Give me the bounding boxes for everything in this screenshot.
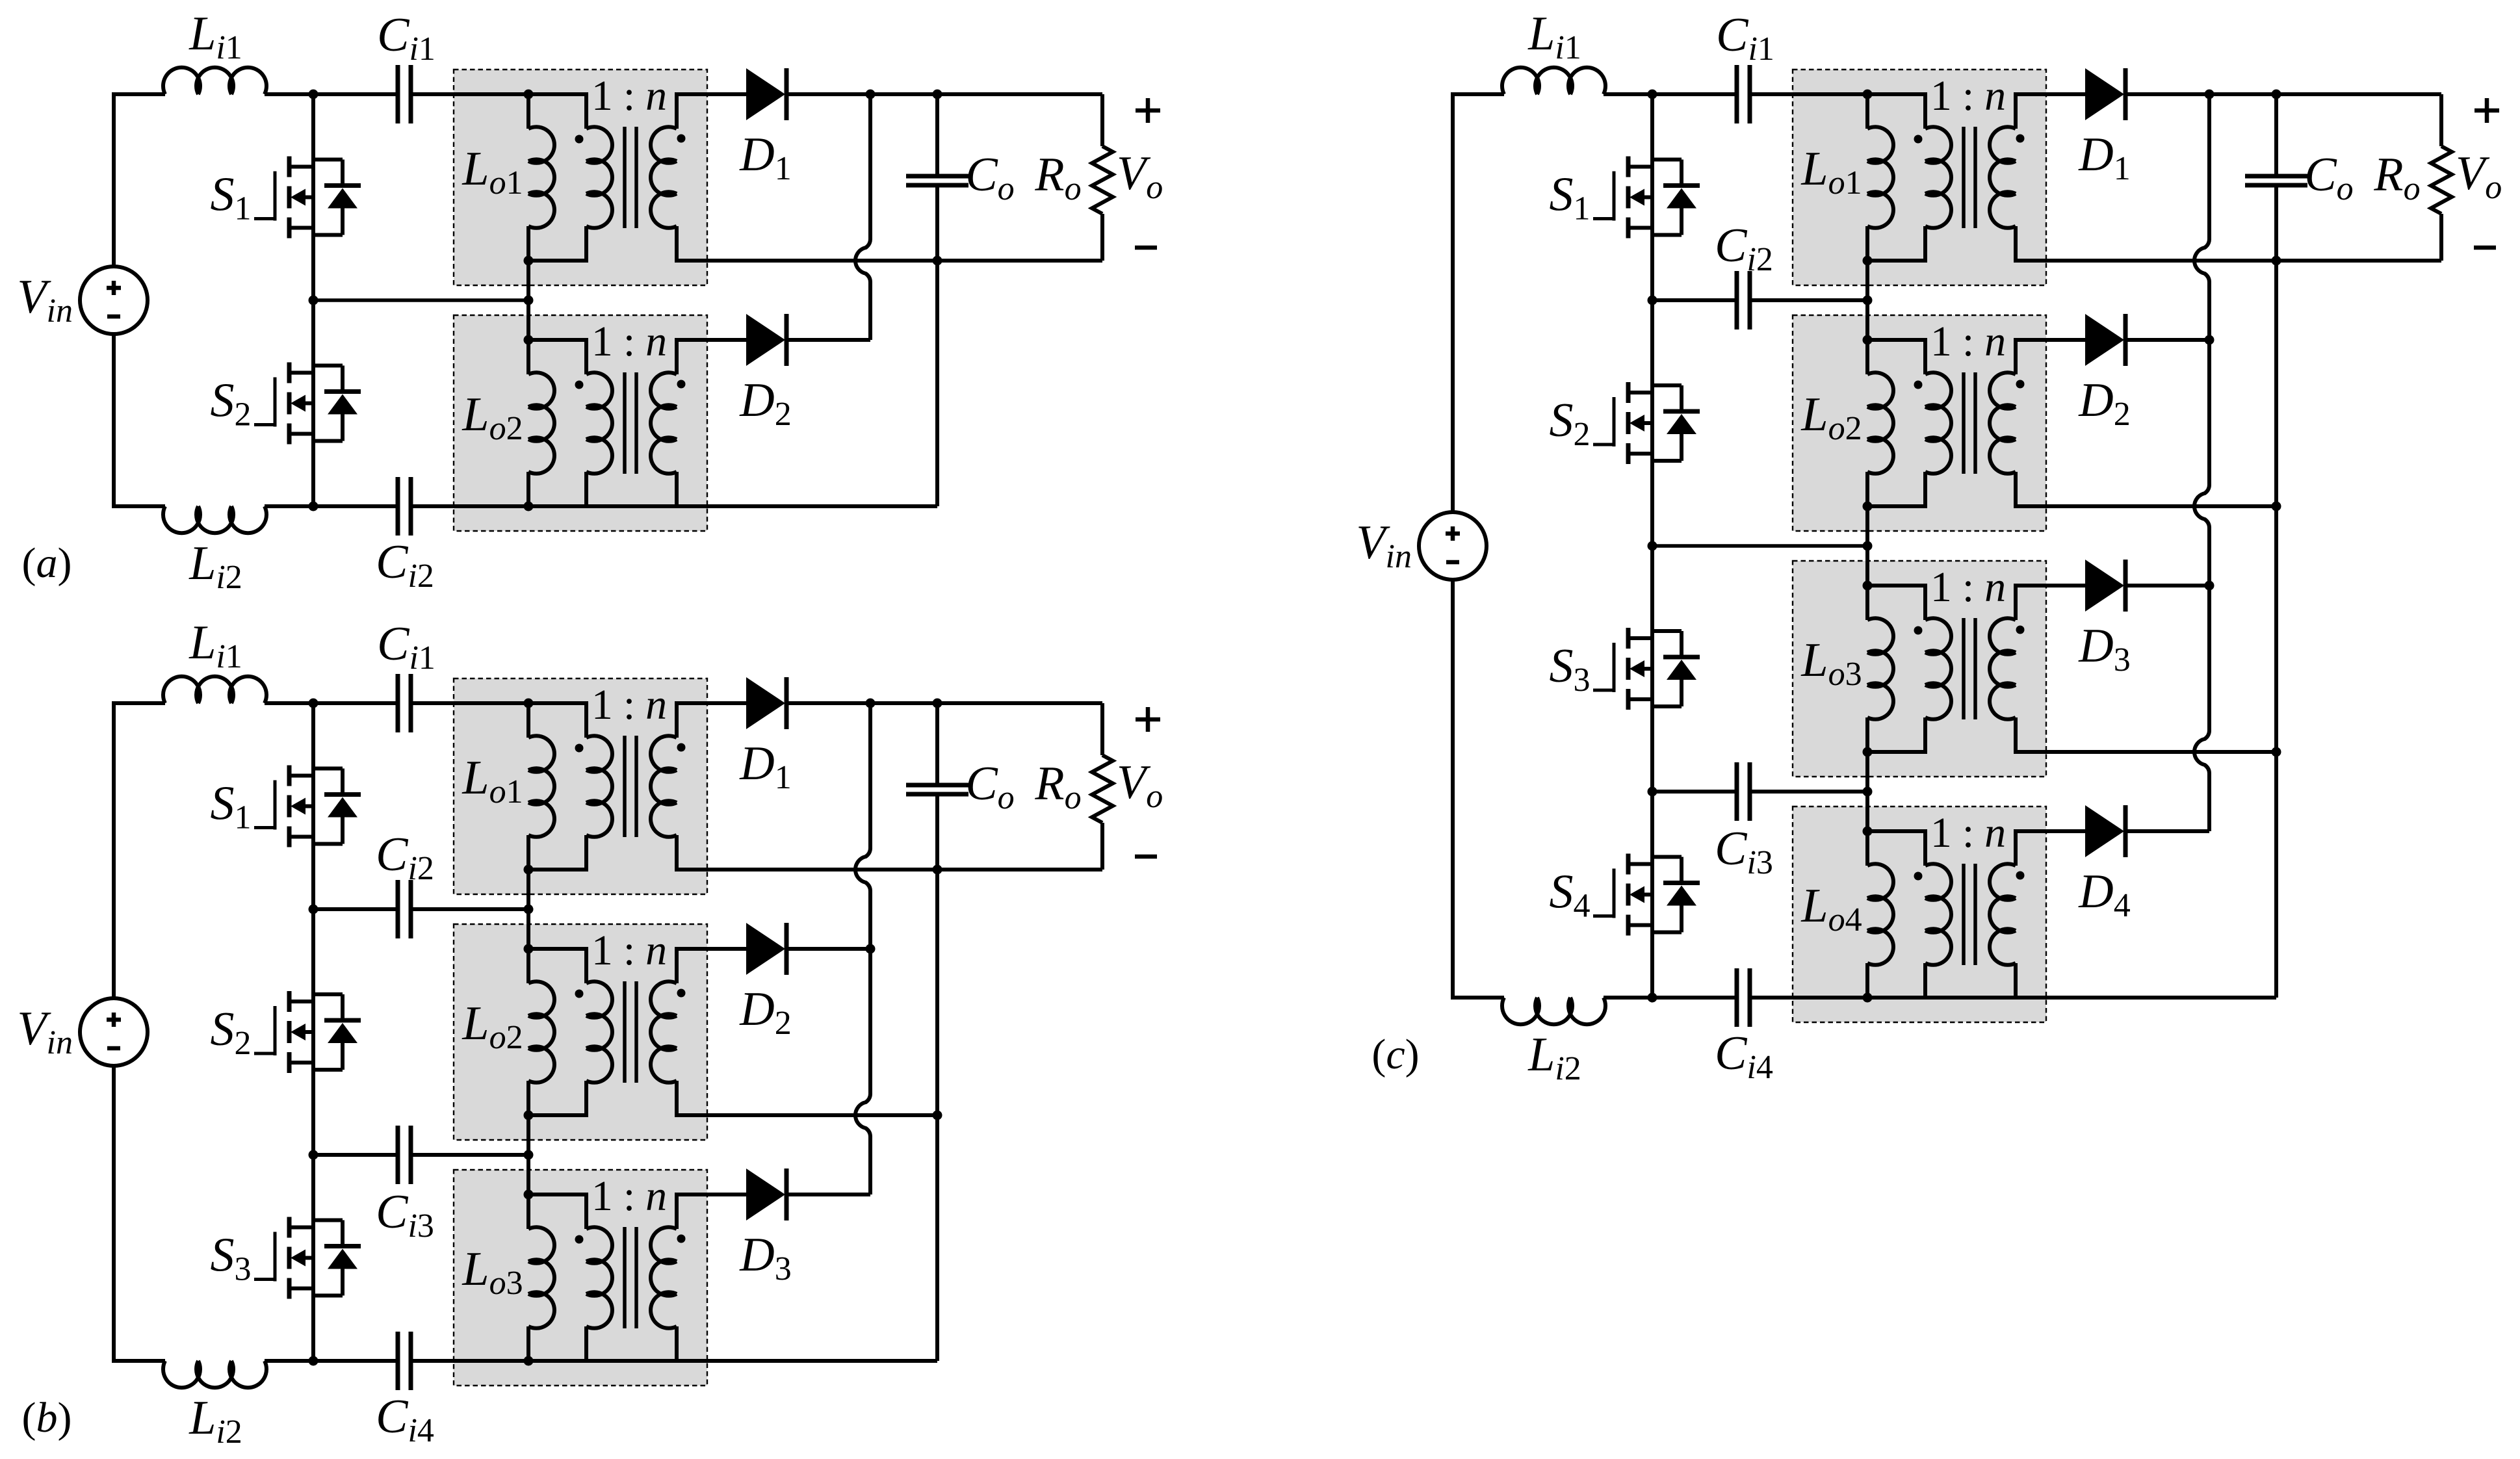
- transformer T2 marks and label Lo2 circuit b: [461, 927, 685, 1056]
- wire top rail to Ci1 circuit b: [265, 701, 398, 705]
- node T2 primary top circuit a: [524, 335, 534, 345]
- node T2 primary top circuit b: [524, 944, 534, 954]
- svg-text:1:n: 1:n: [591, 927, 667, 974]
- wire cathode bus vertical circuit c: [2207, 94, 2211, 831]
- label Vo circuit a: [1117, 147, 1163, 206]
- label D3 circuit b: [739, 1228, 791, 1287]
- wire rail1 right circuit b: [411, 907, 528, 911]
- label Ci1 circuit b: [377, 617, 435, 677]
- wire secondary return row 2 circuit b: [710, 1113, 937, 1117]
- diode D2 circuit a: [746, 314, 786, 366]
- svg-text:1:n: 1:n: [1930, 809, 2006, 857]
- wire Co top lead circuit c: [2274, 94, 2278, 176]
- wire top rail Ci1 to transformer circuit b: [411, 701, 528, 705]
- capacitor Ci1 circuit c: [1737, 65, 1750, 123]
- label D1 circuit b: [739, 737, 791, 796]
- wire node column below T2 circuit c: [1865, 506, 1869, 546]
- label Ro circuit b: [1034, 757, 1081, 816]
- node output plus at Co circuit c: [2272, 90, 2281, 99]
- transistor S4 circuit c: [1593, 854, 1700, 936]
- label S3 circuit b: [211, 1229, 252, 1288]
- wire Co bottom / return bus circuit b: [935, 794, 939, 1361]
- diode D2 circuit c: [2085, 314, 2125, 366]
- label Co circuit b: [965, 757, 1014, 816]
- transformer T1 windings circuit a: [528, 92, 710, 263]
- node rail1 at transformer column circuit a: [524, 296, 534, 305]
- label Ci1 circuit a: [377, 8, 435, 68]
- wire T1 secondary to D1 circuit b: [710, 701, 746, 705]
- node rail3 at transformer column circuit c: [1863, 787, 1873, 797]
- node rail1 at switch column circuit a: [309, 296, 318, 305]
- transistor S1 circuit c: [1593, 157, 1700, 239]
- node rail2 at switch column circuit c: [1648, 541, 1657, 551]
- label S2 circuit b: [211, 1003, 252, 1062]
- transformer T2 windings circuit b: [528, 947, 710, 1117]
- transformer T3 windings circuit c: [1867, 584, 2049, 754]
- wire D2 cathode circuit c: [2127, 338, 2209, 342]
- node D3 on cathode bus circuit c: [2205, 581, 2215, 591]
- capacitor Ci2 circuit a: [398, 477, 411, 536]
- wire rail2 right circuit b: [411, 1153, 528, 1157]
- wire D1 cathode circuit a: [788, 92, 870, 96]
- label S3 circuit c: [1550, 639, 1591, 699]
- wire left vertical top circuit b: [112, 701, 116, 998]
- label Ci2 circuit b: [376, 828, 434, 887]
- wire D2 cathode circuit a: [788, 338, 870, 342]
- label Li2 circuit b: [188, 1391, 242, 1451]
- transistor S2 circuit a: [254, 363, 361, 445]
- label Li1 circuit c: [1527, 7, 1581, 66]
- label Li1 circuit b: [188, 616, 242, 675]
- label S2 circuit a: [211, 374, 252, 433]
- node Lo1 top circuit b: [524, 699, 534, 708]
- node rail2 at switch column circuit b: [309, 1150, 318, 1160]
- wire T1 secondary to D1 circuit a: [710, 92, 746, 96]
- label Ro circuit c: [2373, 148, 2420, 207]
- wire top rail D1 to Co circuit a: [870, 92, 937, 96]
- wire S2 drain circuit b: [311, 909, 315, 1001]
- wire Co bottom / return bus circuit c: [2274, 185, 2278, 998]
- wire top rail D1 to Co circuit c: [2209, 92, 2276, 96]
- label circuit a: [22, 539, 72, 587]
- svg-text:1:n: 1:n: [591, 318, 667, 365]
- wire S3 drain circuit c: [1650, 546, 1654, 638]
- diode D1 circuit a: [746, 68, 786, 120]
- label Li2 circuit a: [188, 537, 242, 596]
- transformer cell box Lo2/T2 circuit a: [454, 315, 707, 531]
- label Vin circuit b: [17, 1002, 73, 1061]
- transformer cell box Lo2/T2 circuit c: [1793, 315, 2046, 531]
- label output plus circuit a: [1136, 98, 1160, 123]
- node T3 primary top circuit b: [524, 1190, 534, 1200]
- wire left vertical bottom circuit a: [112, 334, 116, 508]
- wire node column above T3 circuit b: [526, 1155, 530, 1194]
- wire secondary return row 1 circuit a: [710, 259, 1102, 263]
- wire T2 secondary to D2 circuit a: [710, 338, 746, 342]
- node return row 3 at Co bus circuit c: [2272, 747, 2281, 757]
- label D1 circuit c: [2078, 128, 2130, 187]
- wire rail2 left circuit b: [313, 1153, 398, 1157]
- node rail1 at transformer column circuit b: [524, 905, 534, 914]
- node return row 2 at Co bus circuit b: [933, 1111, 942, 1120]
- wire bottom rail cap to Co column circuit b: [411, 1359, 937, 1363]
- wire secondary return row 2 circuit c: [2049, 504, 2276, 508]
- node T4 primary top circuit c: [1863, 827, 1873, 836]
- label D2 circuit c: [2078, 374, 2130, 433]
- transformer T2 windings circuit c: [1867, 338, 2049, 508]
- wire bottom rail cap to Co column circuit c: [1750, 996, 2276, 1000]
- node bottom of last switch circuit a: [309, 502, 318, 511]
- svg-text:1:n: 1:n: [591, 72, 667, 120]
- svg-text:(b): (b): [22, 1394, 72, 1441]
- wire top rail D1 to Co circuit b: [870, 701, 937, 705]
- transistor S3 circuit c: [1593, 628, 1700, 710]
- node rail2 at transformer column circuit c: [1863, 541, 1873, 551]
- label Ci3 circuit b: [376, 1185, 434, 1245]
- wire S2 drain circuit c: [1650, 300, 1654, 393]
- wire rail1 circuit a: [313, 298, 528, 302]
- wire S3 source circuit c: [1650, 699, 1654, 792]
- wire bottom rail left circuit b: [112, 1359, 165, 1363]
- wire top rail Co to Ro circuit b: [937, 701, 1102, 705]
- wire top rail to Ci1 circuit c: [1604, 92, 1737, 96]
- wire bottom rail to cap circuit b: [265, 1359, 398, 1363]
- capacitor Ci1 circuit a: [398, 65, 411, 123]
- wire S1 drain circuit b: [311, 703, 315, 776]
- wire left vertical top circuit c: [1451, 92, 1455, 512]
- node return row 2 at Co bus circuit c: [2272, 502, 2281, 511]
- wire S2 drain circuit a: [311, 300, 315, 373]
- label circuit c: [1371, 1031, 1419, 1078]
- transformer cell box Lo3/T3 circuit b: [454, 1170, 707, 1386]
- label Ci3 circuit c: [1715, 822, 1773, 881]
- node transformer bottom on rail circuit b: [524, 1356, 534, 1366]
- transformer T4 marks and label Lo4 circuit c: [1800, 809, 2024, 938]
- diode D3 circuit b: [746, 1168, 786, 1220]
- transformer cell box Lo3/T3 circuit c: [1793, 561, 2046, 777]
- node T3 primary bottom circuit c: [1863, 747, 1873, 757]
- wire crossover hop on cathode bus circuit c: [2194, 730, 2209, 773]
- wire crossover hop on cathode bus circuit a: [855, 239, 870, 282]
- node bottom of last switch circuit b: [309, 1356, 318, 1366]
- node T2 primary bottom circuit c: [1863, 502, 1873, 511]
- wire top rail left circuit c: [1451, 92, 1504, 96]
- label S1 circuit a: [211, 168, 252, 227]
- wire node column above T2 circuit a: [526, 300, 530, 340]
- transformer T1 windings circuit c: [1867, 92, 2049, 263]
- wire cathode bus vertical circuit b: [868, 703, 872, 1194]
- node rail1 at switch column circuit c: [1648, 296, 1657, 305]
- label Vo circuit b: [1117, 756, 1163, 815]
- node rail3 at switch column circuit c: [1648, 787, 1657, 797]
- node T1 primary bottom circuit c: [1863, 256, 1873, 266]
- wire node column above T2 circuit b: [526, 909, 530, 949]
- inductor Li2 circuit c: [1502, 998, 1605, 1024]
- node Lo1 top circuit c: [1863, 90, 1873, 99]
- wire bottom rail to cap circuit a: [265, 504, 398, 508]
- wire S1 drain circuit c: [1650, 94, 1654, 167]
- wire cathode bus vertical circuit a: [868, 94, 872, 340]
- wire Co top lead circuit a: [935, 94, 939, 176]
- wire node column above T2 circuit c: [1865, 300, 1869, 340]
- capacitor Ci2 circuit c: [1737, 271, 1750, 329]
- wire top rail left circuit b: [112, 701, 165, 705]
- node T3 primary top circuit c: [1863, 581, 1873, 591]
- wire T3 secondary to D3 circuit b: [710, 1193, 746, 1196]
- label Ci4 circuit c: [1715, 1027, 1773, 1086]
- label D3 circuit c: [2078, 619, 2130, 678]
- label D4 circuit c: [2078, 865, 2130, 924]
- wire crossover hop on cathode bus circuit b: [855, 1094, 870, 1137]
- label S4 circuit c: [1550, 866, 1591, 925]
- wire crossover hop on cathode bus circuit c: [2194, 239, 2209, 282]
- capacitor Ci3 circuit c: [1737, 762, 1750, 821]
- transformer T1 marks and label Lo1 circuit c: [1800, 72, 2024, 201]
- wire S4 source circuit c: [1650, 925, 1654, 998]
- wire left vertical bottom circuit b: [112, 1066, 116, 1363]
- wire top rail Ci1 to transformer circuit a: [411, 92, 528, 96]
- wire S3 drain circuit b: [311, 1155, 315, 1228]
- wire D1 cathode circuit c: [2127, 92, 2209, 96]
- node cathode bus top circuit b: [866, 699, 876, 708]
- wire T3 secondary to D3 circuit c: [2049, 584, 2085, 587]
- wire bottom rail to cap circuit c: [1604, 996, 1737, 1000]
- wire rail1 right circuit c: [1750, 298, 1867, 302]
- wire Co top lead circuit b: [935, 703, 939, 785]
- label Ci4 circuit b: [376, 1390, 434, 1449]
- node T2 primary top circuit c: [1863, 335, 1873, 345]
- node Lo1 top circuit a: [524, 90, 534, 99]
- wire crossover hop on cathode bus circuit c: [2194, 485, 2209, 528]
- capacitor Ci3 circuit b: [398, 1126, 411, 1184]
- transformer T4 windings circuit c: [1867, 829, 2049, 1000]
- wire T1 secondary to D1 circuit c: [2049, 92, 2085, 96]
- inductor Li2 circuit a: [163, 506, 266, 533]
- wire S1 source circuit a: [311, 228, 315, 301]
- node return row 1 at Co bus circuit c: [2272, 256, 2281, 266]
- inductor Li1 circuit a: [163, 68, 266, 94]
- wire rail1 left circuit b: [313, 907, 398, 911]
- transformer T2 windings circuit a: [528, 338, 710, 508]
- label output plus circuit c: [2475, 98, 2499, 123]
- diode D1 circuit b: [746, 677, 786, 729]
- capacitor Co circuit b: [906, 785, 968, 794]
- label Ci2 circuit a: [376, 536, 434, 595]
- wire top rail Co to Ro circuit c: [2276, 92, 2441, 96]
- wire rail3 right circuit c: [1750, 790, 1867, 794]
- wire bottom rail left circuit c: [1451, 996, 1504, 1000]
- node transformer bottom on rail circuit a: [524, 502, 534, 511]
- node rail1 at switch column circuit b: [309, 905, 318, 914]
- wire bottom rail cap to Co column circuit a: [411, 504, 937, 508]
- label D1 circuit a: [739, 128, 791, 187]
- transformer cell box Lo2/T2 circuit b: [454, 924, 707, 1140]
- wire crossover hop on cathode bus circuit b: [855, 848, 870, 891]
- transformer T2 marks and label Lo2 circuit a: [461, 318, 685, 447]
- capacitor Co circuit a: [906, 176, 968, 185]
- inductor Li2 circuit b: [163, 1361, 266, 1388]
- wire top rail left circuit a: [112, 92, 165, 96]
- wire rail3 left circuit c: [1652, 790, 1737, 794]
- transistor S1 circuit b: [254, 766, 361, 847]
- node T1 primary bottom circuit a: [524, 256, 534, 266]
- label Ro circuit a: [1034, 148, 1081, 207]
- wire node column below T1 circuit b: [526, 870, 530, 909]
- label S1 circuit b: [211, 777, 252, 836]
- transformer cell box Lo1/T1 circuit c: [1793, 70, 2046, 285]
- node rail1 at transformer column circuit c: [1863, 296, 1873, 305]
- wire rail1 left circuit c: [1652, 298, 1737, 302]
- wire secondary return row 1 circuit c: [2049, 259, 2441, 263]
- voltage source Vin circuit b: [80, 998, 148, 1066]
- label output plus circuit b: [1136, 707, 1160, 732]
- inductor Li1 circuit c: [1502, 68, 1605, 94]
- node bottom of last switch circuit c: [1648, 993, 1657, 1003]
- wire D1 cathode circuit b: [788, 701, 870, 705]
- resistor Ro circuit b: [1092, 703, 1113, 870]
- svg-text:1:n: 1:n: [1930, 563, 2006, 611]
- wire secondary return row 3 circuit c: [2049, 750, 2276, 754]
- svg-text:1:n: 1:n: [1930, 318, 2006, 365]
- wire bottom rail left circuit a: [112, 504, 165, 508]
- label circuit b: [22, 1394, 72, 1441]
- diode D2 circuit b: [746, 923, 786, 975]
- node D2 on cathode bus circuit c: [2205, 335, 2215, 345]
- label Ci2 circuit c: [1715, 219, 1773, 278]
- wire S1 source circuit c: [1650, 228, 1654, 301]
- wire S2 source circuit c: [1650, 454, 1654, 546]
- svg-text:1:n: 1:n: [591, 1172, 667, 1220]
- wire S4 drain circuit c: [1650, 792, 1654, 864]
- label Li2 circuit c: [1527, 1028, 1581, 1087]
- node rail2 at transformer column circuit b: [524, 1150, 534, 1160]
- transformer T2 marks and label Lo2 circuit c: [1800, 318, 2024, 447]
- wire left vertical top circuit a: [112, 92, 116, 266]
- inductor Li1 circuit b: [163, 677, 266, 703]
- wire rail2 circuit c: [1652, 544, 1867, 548]
- label Co circuit a: [965, 148, 1014, 207]
- transformer cell box Lo1/T1 circuit a: [454, 70, 707, 285]
- node T1 primary bottom circuit b: [524, 865, 534, 875]
- resistor Ro circuit a: [1092, 94, 1113, 261]
- label output minus circuit c: [2474, 246, 2496, 250]
- wire top rail Co to Ro circuit a: [937, 92, 1102, 96]
- transistor S3 circuit b: [254, 1217, 361, 1299]
- capacitor Ci4 circuit b: [398, 1332, 411, 1390]
- transformer cell box Lo1/T1 circuit b: [454, 678, 707, 894]
- wire T2 secondary to D2 circuit c: [2049, 338, 2085, 342]
- wire Co bottom / return bus circuit a: [935, 185, 939, 506]
- node transformer bottom on rail circuit c: [1863, 993, 1873, 1003]
- wire S2 source circuit b: [311, 1063, 315, 1155]
- label S2 circuit c: [1550, 394, 1591, 453]
- node cathode bus top circuit a: [866, 90, 876, 99]
- wire left vertical bottom circuit c: [1451, 580, 1455, 1000]
- transistor S1 circuit a: [254, 157, 361, 239]
- label D2 circuit b: [739, 983, 791, 1042]
- node D2 on cathode bus circuit b: [866, 944, 876, 954]
- wire D3 cathode circuit c: [2127, 584, 2209, 587]
- wire S2 source circuit a: [311, 434, 315, 507]
- wire node column above T4 circuit c: [1865, 792, 1869, 831]
- node return row 1 at Co bus circuit b: [933, 865, 942, 875]
- transformer T1 marks and label Lo1 circuit b: [461, 681, 685, 810]
- diode D4 circuit c: [2085, 805, 2125, 857]
- transistor S2 circuit c: [1593, 382, 1700, 464]
- label Vin circuit c: [1356, 516, 1412, 575]
- capacitor Ci2 circuit b: [398, 880, 411, 938]
- wire top rail to Ci1 circuit a: [265, 92, 398, 96]
- transformer cell box Lo4/T4 circuit c: [1793, 807, 2046, 1022]
- svg-text:(a): (a): [22, 539, 72, 587]
- voltage source Vin circuit a: [80, 266, 148, 334]
- transformer T3 marks and label Lo3 circuit c: [1800, 563, 2024, 693]
- diode D1 circuit c: [2085, 68, 2125, 120]
- voltage source Vin circuit c: [1419, 512, 1487, 580]
- wire node column below T1 circuit c: [1865, 261, 1869, 300]
- label Co circuit c: [2304, 148, 2353, 207]
- capacitor Co circuit c: [2245, 176, 2307, 185]
- wire T2 secondary to D2 circuit b: [710, 947, 746, 951]
- transformer T3 windings circuit b: [528, 1193, 710, 1363]
- node output plus at Co circuit a: [933, 90, 942, 99]
- wire S1 drain circuit a: [311, 94, 315, 167]
- label Li1 circuit a: [188, 7, 242, 66]
- node top of S1 circuit a: [309, 90, 318, 99]
- node T2 primary bottom circuit b: [524, 1111, 534, 1120]
- wire node column below T1 circuit a: [526, 261, 530, 300]
- label Vin circuit a: [17, 270, 73, 329]
- svg-text:(c): (c): [1371, 1031, 1419, 1078]
- label output minus circuit a: [1135, 246, 1157, 250]
- label Ci1 circuit c: [1716, 8, 1774, 68]
- wire T4 secondary to D4 circuit c: [2049, 829, 2085, 833]
- label S1 circuit c: [1550, 168, 1591, 227]
- label D2 circuit a: [739, 374, 791, 433]
- wire S1 source circuit b: [311, 837, 315, 910]
- transformer T1 marks and label Lo1 circuit a: [461, 72, 685, 201]
- transformer T1 windings circuit b: [528, 701, 710, 872]
- wire node column below T2 circuit b: [526, 1115, 530, 1155]
- wire secondary return row 1 circuit b: [710, 868, 1102, 872]
- wire D2 cathode circuit b: [788, 947, 870, 951]
- resistor Ro circuit c: [2431, 94, 2452, 261]
- node top of S1 circuit c: [1648, 90, 1657, 99]
- label Vo circuit c: [2456, 147, 2502, 206]
- node top of S1 circuit b: [309, 699, 318, 708]
- capacitor Ci1 circuit b: [398, 674, 411, 732]
- label output minus circuit b: [1135, 855, 1157, 859]
- wire D4 cathode circuit c: [2127, 829, 2209, 833]
- wire D3 cathode circuit b: [788, 1193, 870, 1196]
- svg-text:1:n: 1:n: [1930, 72, 2006, 120]
- node cathode bus top circuit c: [2205, 90, 2215, 99]
- node output plus at Co circuit b: [933, 699, 942, 708]
- svg-text:1:n: 1:n: [591, 681, 667, 729]
- diode D3 circuit c: [2085, 560, 2125, 612]
- wire node column below T3 circuit c: [1865, 752, 1869, 792]
- transistor S2 circuit b: [254, 991, 361, 1073]
- wire S3 source circuit b: [311, 1289, 315, 1362]
- wire top rail Ci1 to transformer circuit c: [1750, 92, 1867, 96]
- transformer T3 marks and label Lo3 circuit b: [461, 1172, 685, 1302]
- node return row 1 at Co bus circuit a: [933, 256, 942, 266]
- wire node column above T3 circuit c: [1865, 546, 1869, 586]
- capacitor Ci4 circuit c: [1737, 968, 1750, 1027]
